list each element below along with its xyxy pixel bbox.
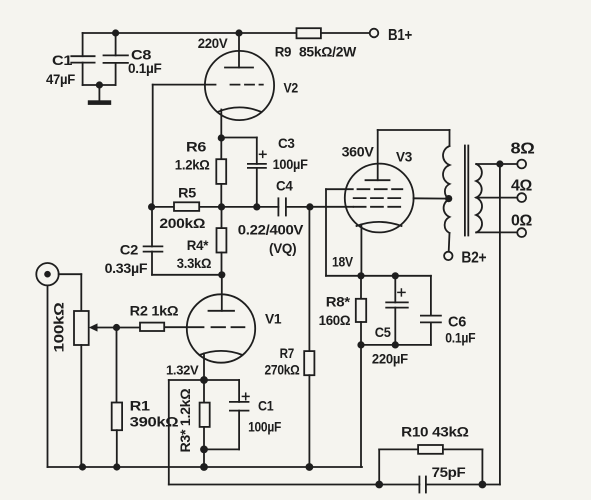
node pot wiper (113, 324, 120, 331)
wire jack ground (47, 285, 49, 467)
node C1/C8 bottom (96, 81, 103, 88)
capacitor C1 (input filter 47uF) (82, 33, 84, 56)
transformer core (464, 146, 466, 236)
V3 grid g3 (326, 188, 353, 190)
svg-text:R9: R9 (275, 44, 292, 60)
node pot ground (79, 463, 86, 470)
node R10 right (479, 481, 487, 489)
wire 0 ohm tap (476, 231, 517, 233)
resistor R4 (221, 207, 223, 228)
wire V2 cathode to C3 (221, 137, 256, 139)
svg-text:B1+: B1+ (388, 27, 412, 44)
resistor R2 (117, 327, 141, 329)
tube V1 envelope (187, 294, 255, 362)
node R3 ground (200, 463, 208, 471)
wire ground riser (360, 345, 362, 467)
svg-text:100µF: 100µF (248, 419, 282, 435)
svg-text:0Ω: 0Ω (511, 213, 532, 230)
wire C1/C8 bottom (83, 84, 116, 86)
svg-text:R7: R7 (280, 345, 295, 361)
input jack (36, 263, 58, 285)
capacitor C6 (430, 276, 432, 316)
svg-text:V3: V3 (396, 149, 412, 165)
node primary tap (445, 195, 452, 202)
svg-text:R10 43kΩ: R10 43kΩ (401, 424, 469, 440)
wire feedback bottom (169, 484, 420, 486)
wire 8 ohm tap (476, 163, 517, 165)
wire V1 cathode bus (169, 379, 239, 381)
wire top rail B1+ (83, 32, 297, 34)
wire V2 grid drop (152, 85, 154, 207)
svg-text:8Ω: 8Ω (511, 141, 535, 158)
resistor R9 (297, 28, 321, 38)
V2 grid (153, 84, 216, 86)
svg-text:100kΩ: 100kΩ (51, 302, 67, 352)
svg-text:R1: R1 (130, 398, 151, 414)
V3 cathode (357, 222, 402, 226)
node R1 ground (113, 463, 120, 470)
V3 grid g2 (354, 197, 403, 199)
svg-text:C1: C1 (52, 52, 73, 68)
potentiometer 100k (74, 311, 89, 345)
terminal 8 ohm (517, 160, 526, 169)
node R7 ground (306, 463, 314, 471)
svg-text:360V: 360V (342, 144, 375, 160)
resistor R1 (116, 328, 118, 403)
svg-text:R8*: R8* (326, 294, 351, 310)
node V2 cathode (218, 134, 225, 141)
node V1 cathode (200, 376, 208, 384)
node A R6/R4 (218, 203, 225, 210)
svg-text:C6: C6 (448, 314, 466, 331)
resistor R3 (203, 380, 205, 403)
wire 4 ohm tap (476, 197, 517, 199)
transformer secondary (476, 164, 482, 232)
capacitor C5 (394, 276, 396, 303)
wire V3 plate to transformer (378, 129, 450, 131)
wire g3 riser (325, 189, 327, 276)
terminal 4 ohm (517, 193, 526, 202)
wire ground bus (48, 466, 363, 468)
node R10 left (375, 481, 383, 489)
resistor R6 (220, 138, 222, 159)
svg-text:160Ω: 160Ω (319, 312, 351, 328)
wire C1 bottom to R3 node (204, 448, 239, 450)
V2 plate (238, 33, 240, 68)
wire R9 to B1+ (321, 32, 370, 34)
resistor R7 (308, 207, 310, 351)
svg-text:1.2kΩ: 1.2kΩ (175, 157, 210, 173)
svg-text:V2: V2 (284, 80, 299, 96)
tube V2 envelope (205, 51, 274, 120)
svg-text:390kΩ: 390kΩ (130, 414, 179, 430)
ground (98, 85, 100, 100)
svg-text:47µF: 47µF (46, 71, 76, 87)
capacitor C4 (277, 198, 279, 215)
node V2 plate (235, 29, 242, 36)
node C8 top (112, 29, 119, 36)
svg-text:270kΩ: 270kΩ (265, 362, 300, 378)
svg-text:C2: C2 (120, 242, 139, 258)
V1 grid (164, 326, 203, 328)
node 8 ohm tap (496, 160, 503, 167)
svg-text:75pF: 75pF (432, 464, 467, 480)
svg-text:C4: C4 (276, 178, 293, 194)
node C3 bottom (253, 203, 260, 210)
terminal B1+ (370, 29, 379, 38)
resistor R10 (378, 449, 380, 484)
transformer primary (443, 146, 449, 233)
terminal B2+ (444, 252, 452, 260)
svg-text:V1: V1 (265, 311, 282, 327)
node C5 top (392, 272, 399, 279)
svg-text:0.22/400V: 0.22/400V (238, 222, 304, 238)
svg-text:0.1µF: 0.1µF (445, 330, 476, 346)
svg-text:200kΩ: 200kΩ (159, 215, 205, 231)
svg-text:85kΩ/2W: 85kΩ/2W (299, 44, 357, 60)
V3 plate (377, 130, 379, 180)
svg-text:B2+: B2+ (461, 250, 486, 267)
svg-text:C1: C1 (258, 398, 274, 414)
V2 cathode (218, 107, 262, 112)
wire feedback from 8 ohm tap (499, 164, 501, 485)
terminal 0 ohm (517, 228, 526, 237)
resistor R5 (174, 202, 199, 211)
node R3 bottom (200, 446, 208, 454)
node V3 cathode (357, 272, 364, 279)
V1 plate (221, 275, 223, 311)
svg-text:C5: C5 (375, 324, 391, 340)
svg-text:220µF: 220µF (372, 351, 409, 367)
capacitor 75pF (418, 477, 420, 493)
node R8 bottom (357, 341, 364, 348)
svg-text:220V: 220V (198, 35, 229, 51)
node C4 out (306, 203, 313, 210)
svg-text:3.3kΩ: 3.3kΩ (177, 255, 211, 271)
capacitor C8 (115, 33, 117, 55)
wire 18V cathode row (326, 275, 431, 277)
wire main node row (151, 206, 278, 208)
svg-text:(VQ): (VQ) (269, 240, 296, 256)
svg-text:18V: 18V (332, 254, 354, 270)
node V1 plate (218, 271, 225, 278)
svg-text:0.33µF: 0.33µF (105, 260, 148, 276)
capacitor C2 (151, 207, 153, 247)
wire jack to pot (59, 273, 82, 275)
wire C2 to V1 plate node (152, 274, 222, 276)
node R5 left (148, 203, 155, 210)
wire feedback riser to cathode (168, 380, 170, 485)
pot wiper arrow (97, 327, 117, 329)
V1 cathode (200, 351, 243, 355)
V3 grid g1 (354, 206, 403, 208)
node C5 bottom (392, 341, 399, 348)
svg-text:R6: R6 (186, 139, 207, 155)
capacitor C1 cathode bypass (238, 380, 240, 402)
svg-text:0.1µF: 0.1µF (128, 60, 162, 76)
svg-text:R4*: R4* (187, 237, 209, 253)
wire C4 to V3 grid (286, 206, 310, 208)
tube V3 envelope (345, 164, 414, 233)
svg-text:100µF: 100µF (273, 156, 309, 172)
capacitor C3 (256, 138, 258, 164)
svg-text:R2 1kΩ: R2 1kΩ (130, 303, 179, 319)
svg-text:R5: R5 (178, 185, 196, 201)
svg-text:4Ω: 4Ω (511, 178, 532, 195)
svg-text:C3: C3 (278, 135, 295, 151)
resistor R8 (360, 276, 362, 299)
svg-text:R3* 1.2kΩ: R3* 1.2kΩ (177, 389, 193, 453)
wire R8/C5/C6 bottom row (360, 344, 431, 346)
svg-text:1.32V: 1.32V (166, 363, 199, 378)
